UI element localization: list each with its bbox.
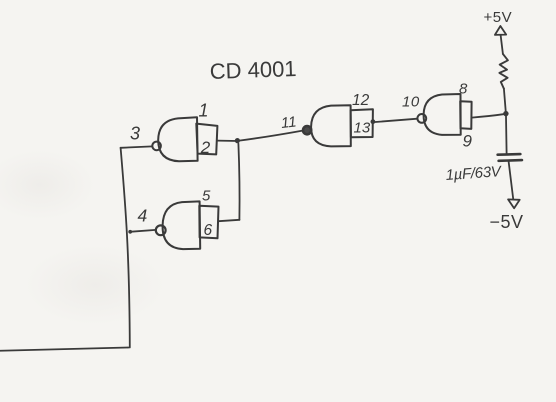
svg-text:11: 11: [280, 113, 297, 132]
wire capacitor to -5V arrow: [509, 161, 514, 198]
svg-text:−5V: −5V: [490, 212, 524, 232]
node A junction dot: [235, 138, 240, 143]
U1B output bubble (pin 4): [156, 225, 166, 235]
wire +5V arrow to resistor: [501, 35, 503, 54]
svg-text:+5V: +5V: [484, 9, 513, 26]
svg-text:6: 6: [204, 222, 213, 239]
wire U1D input rect (pin 13) to U1C output bubble (pin 10): [375, 119, 417, 122]
wire pin 4 to left vertical line: [130, 230, 156, 232]
svg-text:5: 5: [202, 188, 211, 205]
U1B input rectangle (pins 5,6 tied): [199, 206, 218, 239]
capacitor C1 top plate: [498, 153, 521, 156]
U1C output bubble (pin 10): [417, 114, 426, 123]
svg-text:CD 4001: CD 4001: [209, 56, 297, 84]
node B junction dot: [503, 111, 508, 116]
resistor R1 squiggle: [499, 54, 508, 89]
wire bottom horizontal to left edge: [0, 348, 129, 351]
NOR gate U1B body (pins 5,6 in / 4 out): [163, 201, 201, 249]
svg-text:12: 12: [352, 92, 370, 109]
U1D output bubble (pin 11, inked dark): [303, 126, 311, 134]
wire node B down to capacitor: [505, 116, 508, 153]
wire resistor to node B: [504, 89, 506, 111]
pin 13 junction dot: [371, 119, 376, 124]
svg-text:9: 9: [463, 132, 473, 151]
pin 4 wire junction nub: [128, 230, 132, 234]
wire node A to U1D output bubble (pin 11): [240, 131, 302, 141]
NOR gate U1D body (pins 12,13 in / 11 out): [311, 105, 351, 146]
wire node A down: [238, 144, 239, 220]
wire U1C input rect (pins 8,9) to node B: [472, 114, 504, 117]
U1C input rectangle (pins 8,9 tied): [460, 101, 471, 129]
U1D input rectangle (pins 12,13 tied): [351, 109, 373, 137]
U1A input rectangle (pins 1,2 tied): [196, 124, 217, 155]
svg-text:3: 3: [130, 124, 140, 144]
svg-text:1: 1: [199, 101, 209, 121]
wire left vertical feedback line: [121, 148, 130, 348]
svg-text:10: 10: [402, 94, 420, 111]
svg-text:8: 8: [459, 81, 468, 98]
+5V arrow head: [495, 26, 506, 35]
capacitor C1 bottom plate: [499, 159, 522, 162]
svg-text:2: 2: [200, 138, 211, 157]
wire down leg to U1B input rect: [219, 220, 240, 221]
-5V arrow head: [508, 199, 520, 208]
svg-text:13: 13: [354, 120, 371, 137]
wire U1A output (pin 3) to left corner: [121, 146, 153, 147]
NOR gate U1C body (pins 8,9 in / 10 out): [424, 94, 461, 135]
svg-text:4: 4: [138, 206, 148, 226]
NOR gate U1A body (pins 1,2 in / 3 out): [158, 117, 197, 161]
U1A output bubble (pin 3): [152, 142, 161, 151]
wire U1A input rect to node A: [217, 140, 238, 142]
